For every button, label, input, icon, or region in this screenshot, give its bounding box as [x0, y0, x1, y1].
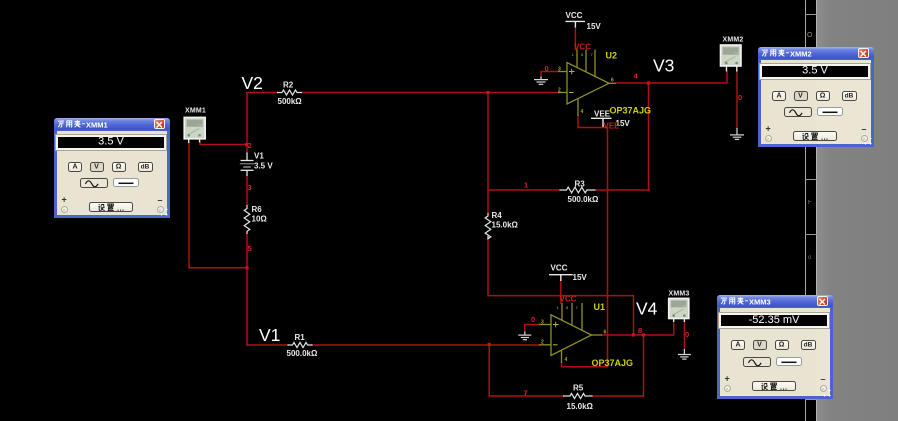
display readout [56, 135, 166, 150]
close button [858, 48, 869, 58]
wire battery to R6 [246, 176, 248, 205]
multimeter window XMM2 [758, 60, 874, 147]
button dB [801, 340, 816, 350]
wire VCC stub U2 [574, 28, 576, 50]
minus terminal label [157, 195, 159, 197]
button A [68, 162, 82, 172]
wire V2 rail left of R2 [247, 92, 278, 94]
junction R5 drop on V1 rail [488, 343, 491, 346]
wire R3 rail right [596, 189, 650, 191]
svg-text:dB: dB [804, 342, 813, 349]
wire R6 to V1 corner [246, 234, 248, 345]
settings button [89, 202, 133, 213]
svg-text:-52.35 mV: -52.35 mV [749, 314, 800, 326]
wire R5 rail right [592, 395, 644, 397]
svg-text:V: V [757, 342, 762, 349]
button Ohm [816, 91, 830, 101]
plus terminal [724, 385, 731, 392]
button V (selected) [90, 162, 104, 172]
minus terminal [820, 385, 827, 392]
minus terminal [861, 135, 868, 142]
wire XMM1 minus terminal to main vertical [200, 143, 246, 145]
VCC symbol U2 [566, 21, 586, 27]
wire node1 vertical rail-92 to R4 [487, 93, 489, 214]
wire U1 output down to R5 rail [643, 335, 645, 396]
minus terminal [157, 206, 164, 213]
sheet border tick y179 [805, 179, 817, 180]
battery V1 [240, 153, 254, 177]
ground at XMM3 [678, 349, 691, 359]
wire R5 rail left [489, 395, 563, 397]
button dB [842, 91, 857, 101]
sheet margin glyph O [807, 32, 815, 40]
resistor R1 [288, 342, 313, 347]
wire VEE long vertical [607, 128, 609, 367]
XMM3 instrument icon [669, 298, 689, 322]
svg-text:–: – [821, 374, 826, 384]
plus terminal label [724, 373, 726, 375]
VCC symbol U1 [549, 275, 573, 281]
wire VEE bottom to U1 Vminus pin [562, 363, 608, 367]
title bar [54, 118, 170, 131]
wire XMM3 minus to ground [683, 322, 685, 349]
wire VCC stub U1 [560, 281, 562, 303]
button DC (line, selected) [113, 178, 139, 187]
resistor R4 [485, 213, 491, 239]
resize grip [864, 137, 872, 145]
close button [817, 296, 828, 306]
junction node 2 area [245, 143, 248, 146]
button A [731, 340, 745, 350]
button dB [138, 162, 153, 172]
op-amp U1 [539, 303, 602, 363]
ground at U2 plus input [534, 77, 548, 85]
wire main left vertical V2 to battery [246, 93, 248, 153]
wire R5 drop from V1 rail [488, 345, 490, 397]
U1 pin numbers [541, 305, 607, 363]
VEE symbol U2 [591, 118, 612, 127]
wire V1 rail right of R1 to U1 minus input [312, 344, 539, 346]
settings button [793, 131, 837, 142]
resistor R3 [560, 187, 596, 193]
wire V1 rail left of R1 [247, 344, 288, 346]
junction at node1 top [486, 91, 489, 94]
wire U2 plus input to ground [541, 72, 558, 77]
resize grip [823, 389, 831, 397]
junction XMM1 tap [245, 266, 248, 269]
multimeter window XMM3 [717, 308, 833, 399]
wire V2 rail right of R2 to U2 minus input [302, 92, 559, 94]
op-amp U2 [558, 50, 616, 117]
svg-text:A: A [735, 342, 740, 349]
button AC (sine) [743, 357, 771, 367]
title bar [717, 295, 833, 308]
sheet border left line [805, 0, 806, 421]
settings button [752, 381, 796, 392]
wire U1 plus input to ground [525, 325, 539, 332]
wire U2 output to XMM2 [616, 72, 728, 84]
ground at U1 plus input [518, 332, 531, 340]
wire R3 rail left [488, 189, 560, 191]
sheet border tick y234 [805, 234, 817, 235]
right gray panel [817, 0, 898, 421]
resize grip [160, 208, 168, 216]
button V (selected) [753, 340, 767, 350]
minus terminal label [861, 124, 863, 126]
button V (selected) [794, 91, 808, 101]
XMM2 instrument icon [721, 45, 742, 72]
svg-text:XMM3: XMM3 [749, 297, 771, 306]
wire XMM1 plus terminal down and right [189, 143, 246, 268]
plus terminal label [765, 123, 767, 125]
resistor R6 [244, 205, 250, 234]
wire U2 output down to R3 right [648, 83, 650, 190]
plus terminal [765, 135, 772, 142]
wire R4 bottom to feedback row [487, 236, 489, 296]
button Ohm [112, 162, 126, 172]
button DC (line, selected) [776, 357, 802, 366]
junction U2 output [647, 81, 650, 84]
U2 pin numbers [558, 52, 614, 115]
sheet border tick y399 [805, 399, 817, 400]
multimeter window XMM1 [54, 131, 170, 218]
wire U1 output to XMM3 [602, 322, 674, 335]
button A [772, 91, 786, 101]
display readout [719, 313, 829, 328]
ground at XMM2 [730, 128, 744, 139]
resistor R2 [277, 90, 302, 95]
plus terminal label [61, 194, 63, 196]
resistor R5 [563, 393, 593, 398]
minus terminal label [820, 374, 822, 376]
button Ohm [775, 340, 789, 350]
sheet border tick y14 [805, 14, 817, 15]
display readout [760, 64, 870, 79]
plus terminal [61, 206, 68, 213]
junction feedback joins output [632, 333, 635, 336]
button DC (line, selected) [817, 107, 843, 116]
button AC (sine) [784, 107, 812, 117]
svg-text:Ω: Ω [779, 342, 785, 349]
sheet border right line [816, 0, 817, 421]
title bar [758, 47, 874, 60]
button AC (sine) [80, 178, 108, 188]
XMM1 instrument icon [184, 117, 205, 143]
wire XMM2 minus to ground [736, 72, 738, 129]
wire feedback row to U1 output [488, 296, 634, 335]
sheet margin glyph F [808, 200, 816, 208]
sheet margin glyph o2 [808, 255, 816, 263]
close button [154, 119, 165, 129]
svg-text:+: + [725, 374, 730, 384]
junction node 8 [642, 333, 645, 336]
wire U2 Vminus pin to VEE vertical [578, 116, 608, 128]
